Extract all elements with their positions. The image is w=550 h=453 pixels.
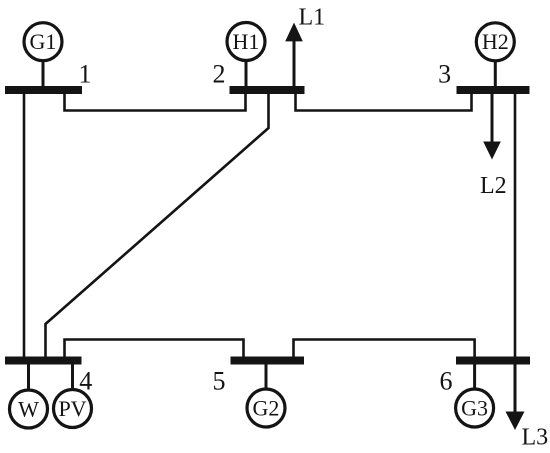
generator G2 (247, 363, 285, 427)
wire line 1-2 (65, 92, 246, 111)
svg-text:PV: PV (58, 396, 86, 421)
load L3 arrow (506, 357, 525, 430)
wire line 4-5 (65, 340, 244, 360)
generator PV (54, 363, 92, 428)
bus 6 (456, 357, 530, 365)
load L2 arrow (483, 93, 501, 160)
bus 5 (231, 357, 305, 365)
svg-text:L3: L3 (522, 425, 549, 451)
svg-text:5: 5 (213, 366, 226, 395)
svg-text:6: 6 (440, 366, 453, 395)
svg-text:H1: H1 (233, 29, 260, 54)
wire line 5-6 (294, 340, 475, 360)
svg-text:1: 1 (79, 60, 92, 89)
bus 4 (5, 357, 82, 365)
svg-text:H2: H2 (482, 29, 509, 54)
bus 3 (457, 86, 530, 94)
wire line 2-3 (296, 92, 472, 111)
wire line 3-6 (514, 92, 517, 357)
generator W (10, 363, 48, 428)
svg-text:G3: G3 (461, 395, 488, 420)
bus 2 (230, 86, 305, 94)
svg-text:G2: G2 (253, 395, 280, 420)
wire line 1-4 (23, 92, 26, 358)
generator G1 (24, 23, 62, 87)
generator G3 (456, 363, 494, 427)
svg-text:3: 3 (438, 60, 451, 89)
svg-text:L2: L2 (480, 173, 507, 199)
svg-text:L1: L1 (299, 5, 326, 31)
generator H2 (476, 23, 514, 87)
load L1 arrow (285, 23, 303, 88)
generator H1 (227, 23, 265, 88)
svg-text:W: W (18, 396, 39, 421)
bus 1 (5, 86, 82, 94)
wire line 2-4 diagonal (46, 92, 269, 358)
svg-text:G1: G1 (30, 29, 57, 54)
svg-text:2: 2 (213, 60, 226, 89)
